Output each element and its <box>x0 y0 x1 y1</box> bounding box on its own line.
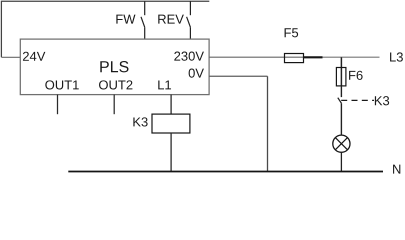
label PLS <box>100 61 128 72</box>
label F6 <box>349 71 363 80</box>
label FW <box>116 15 135 24</box>
terminal label 24V <box>23 52 45 61</box>
relay coil K3 <box>152 114 190 133</box>
terminal label L1 <box>158 80 171 89</box>
wire: L1 to relay coil <box>170 95 172 115</box>
wire: 24V feed into PLS <box>1 56 20 58</box>
wire: 24V supply rail (top and left) <box>1 1 209 57</box>
label K3 (coil) <box>133 117 147 126</box>
wire: lamp to N rail <box>340 152 342 171</box>
contact K3 (normally open) <box>338 86 342 135</box>
fuse F6 <box>336 68 346 86</box>
wire: 0V terminal to vertical drop <box>209 75 267 77</box>
net label L3 <box>390 52 403 61</box>
wire: 0V drop to N rail <box>267 76 269 171</box>
PLS controller box U1 <box>20 39 209 95</box>
switch REV <box>187 1 191 39</box>
wire: junction down through fuse F6 <box>340 57 342 86</box>
wire: 230V terminal to fuse F5 <box>209 56 303 58</box>
wire: coil K3 to N rail <box>170 133 172 171</box>
terminal label 0V <box>189 69 204 78</box>
label K3 (contact) <box>375 96 389 105</box>
wire: OUT1 stub <box>57 95 59 115</box>
switch FW <box>141 1 145 39</box>
terminal label OUT2 <box>99 80 132 89</box>
wire: junction to L3 terminal <box>323 56 380 58</box>
fuse F5 <box>285 54 304 63</box>
dashed link to coil K3 <box>341 99 374 101</box>
label F5 <box>285 28 299 37</box>
wire: fuse F5 to junction (heavy segment) <box>304 56 323 58</box>
wire: N rail <box>68 171 383 173</box>
wire: OUT2 stub <box>113 95 115 115</box>
terminal label 230V <box>174 52 204 61</box>
terminal label OUT1 <box>45 80 78 89</box>
lamp H1 <box>333 135 350 152</box>
label REV <box>158 15 184 24</box>
net label N <box>393 165 400 174</box>
